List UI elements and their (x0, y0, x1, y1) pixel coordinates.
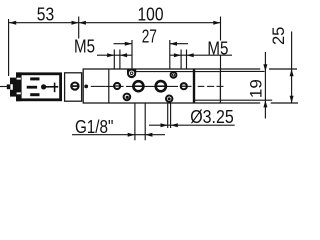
coil symbol dash top (30, 77, 39, 80)
dimension 27 right tail (170, 43, 188, 45)
coil terminal white dash bottom (17, 92, 21, 94)
arrow 27 left (outside) (125, 42, 132, 46)
dimension line 19 (264, 52, 266, 119)
body division line 1 (108, 69, 110, 103)
arrow M5 left pair, left (107, 53, 114, 57)
extension line top inner right (221, 70, 265, 72)
dimension line M5 left (97, 54, 132, 56)
arrow 25 top (inside, pointing up) (290, 69, 294, 76)
bottom small circle 1 (124, 94, 131, 101)
pilot port M5 right (181, 83, 187, 89)
svg-text:100: 100 (138, 4, 164, 24)
arrow G1/8 left (outside) (128, 133, 135, 137)
coil symbol dash middle (27, 86, 37, 89)
svg-text:M5: M5 (207, 38, 228, 58)
coil left wall (extra thick) (16, 72, 22, 101)
top small circle 2 (171, 72, 177, 78)
extension line left of 53 (8, 19, 10, 76)
svg-text:M5: M5 (74, 37, 95, 57)
extension lines M5 left pair (113, 50, 115, 70)
connector pin (7, 84, 11, 89)
arrow 19 top (outside, pointing down) (263, 64, 267, 71)
dimension line 53 (9, 22, 79, 24)
dimension 27 left tail (114, 43, 133, 45)
svg-text:Ø3.25: Ø3.25 (190, 107, 234, 127)
extension line right of 100 (lower part) (220, 55, 222, 69)
extension line 27 left (131, 40, 133, 69)
arrow 27 right (outside) (170, 42, 177, 46)
coil terminal white dash top (17, 78, 21, 80)
body inner top line (136, 71, 220, 73)
body division line 2 (thick) (193, 69, 195, 103)
adapter plate (65, 73, 82, 101)
arrow M5 right pair, left (174, 53, 181, 57)
top pocket with screw (feature 1) (127, 69, 136, 78)
arrow 53 left (9, 21, 16, 25)
centerline stub far left (0, 86, 7, 88)
arrow G1/8 right (outside) (145, 133, 152, 137)
coil symbol dash bottom (30, 93, 39, 96)
svg-text:19: 19 (246, 79, 265, 98)
dimension line 25 (291, 32, 293, 104)
extension line right of 100 (upper part) (220, 17, 222, 41)
coil symbol wire (46, 86, 58, 88)
body inner bottom line (194, 99, 220, 101)
svg-text:53: 53 (37, 5, 54, 25)
extension lines diameter 3.25 pair (167, 104, 169, 129)
dimension line M5 right (170, 54, 232, 56)
extension line bottom outer right (right part) (271, 102, 298, 104)
extension line top outer right (right part) (269, 68, 297, 70)
extension line bottom inner right (221, 99, 272, 101)
centerline (dash-dot segments) (91, 85, 224, 87)
bottom small circle 2 (diameter 3.25 hole) (166, 96, 172, 102)
svg-text:G1/8": G1/8" (75, 117, 114, 137)
coil symbol cross (54, 83, 56, 93)
extension lines M5 right pair (180, 50, 182, 70)
dimension line G1/8 (72, 134, 165, 136)
extension line 27 right (169, 40, 171, 69)
svg-text:27: 27 (142, 27, 157, 47)
arrow 53 right (72, 21, 79, 25)
extension line top outer right (left part) (221, 68, 260, 70)
pilot port M5 left (114, 83, 120, 89)
plate screw slot (72, 85, 78, 87)
extension line between 53 and 100 (78, 17, 80, 39)
arrow 25 bottom (inside, pointing down) (290, 96, 294, 103)
dimension line diameter 3.25 (149, 124, 235, 126)
main port 1 (G1/8) (133, 81, 143, 91)
main port 2 (G1/8) (156, 81, 166, 91)
coil symbol dot (41, 84, 46, 89)
arrow diameter 3.25 left (outside) (161, 123, 168, 127)
extension lines G1/8 pair (134, 92, 136, 140)
arrow 100 left (79, 21, 86, 25)
solenoid coil outline (thick) (17, 74, 60, 100)
arrow M5 left pair, right (120, 53, 127, 57)
extension line bottom outer right (left part) (221, 102, 260, 104)
valve body (83, 69, 220, 103)
centerline dot (84, 85, 88, 89)
dimension line 100 (79, 22, 221, 24)
arrow diameter 3.25 right (outside) (171, 123, 178, 127)
connector notch (white) (10, 84, 12, 90)
arrow M5 right pair, right (187, 53, 194, 57)
svg-text:25: 25 (269, 27, 288, 46)
arrow 19 bottom (outside, pointing up) (263, 100, 267, 107)
arrow 100 right (213, 21, 220, 25)
plate screw circle (71, 83, 78, 90)
connector block (10, 78, 16, 97)
